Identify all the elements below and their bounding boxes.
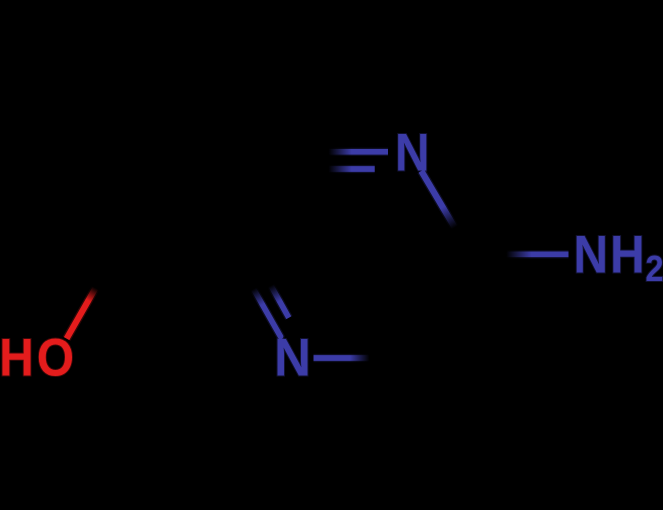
bond CH2-C2	[115, 250, 234, 259]
bond N1-C5	[421, 171, 471, 256]
bond C2=N4 inner line	[254, 255, 289, 318]
svg-text:N: N	[274, 328, 311, 387]
svg-text:O: O	[37, 328, 74, 387]
bond C3=N1 main line	[294, 148, 388, 156]
bond C2=N4 main line	[234, 255, 281, 337]
svg-text:N: N	[573, 225, 608, 284]
svg-text:N: N	[395, 124, 430, 183]
svg-text:H: H	[610, 226, 645, 285]
bond C6-N4	[314, 354, 412, 362]
bond CH2-O	[67, 254, 115, 338]
svg-text:H: H	[0, 329, 34, 388]
bond C5=C6 main line	[412, 256, 472, 359]
bond C5=C6 inner line	[402, 256, 452, 341]
svg-text:2: 2	[645, 250, 663, 290]
bond C3=N1 inner line	[312, 165, 375, 173]
bond C5-NH2	[471, 250, 568, 258]
